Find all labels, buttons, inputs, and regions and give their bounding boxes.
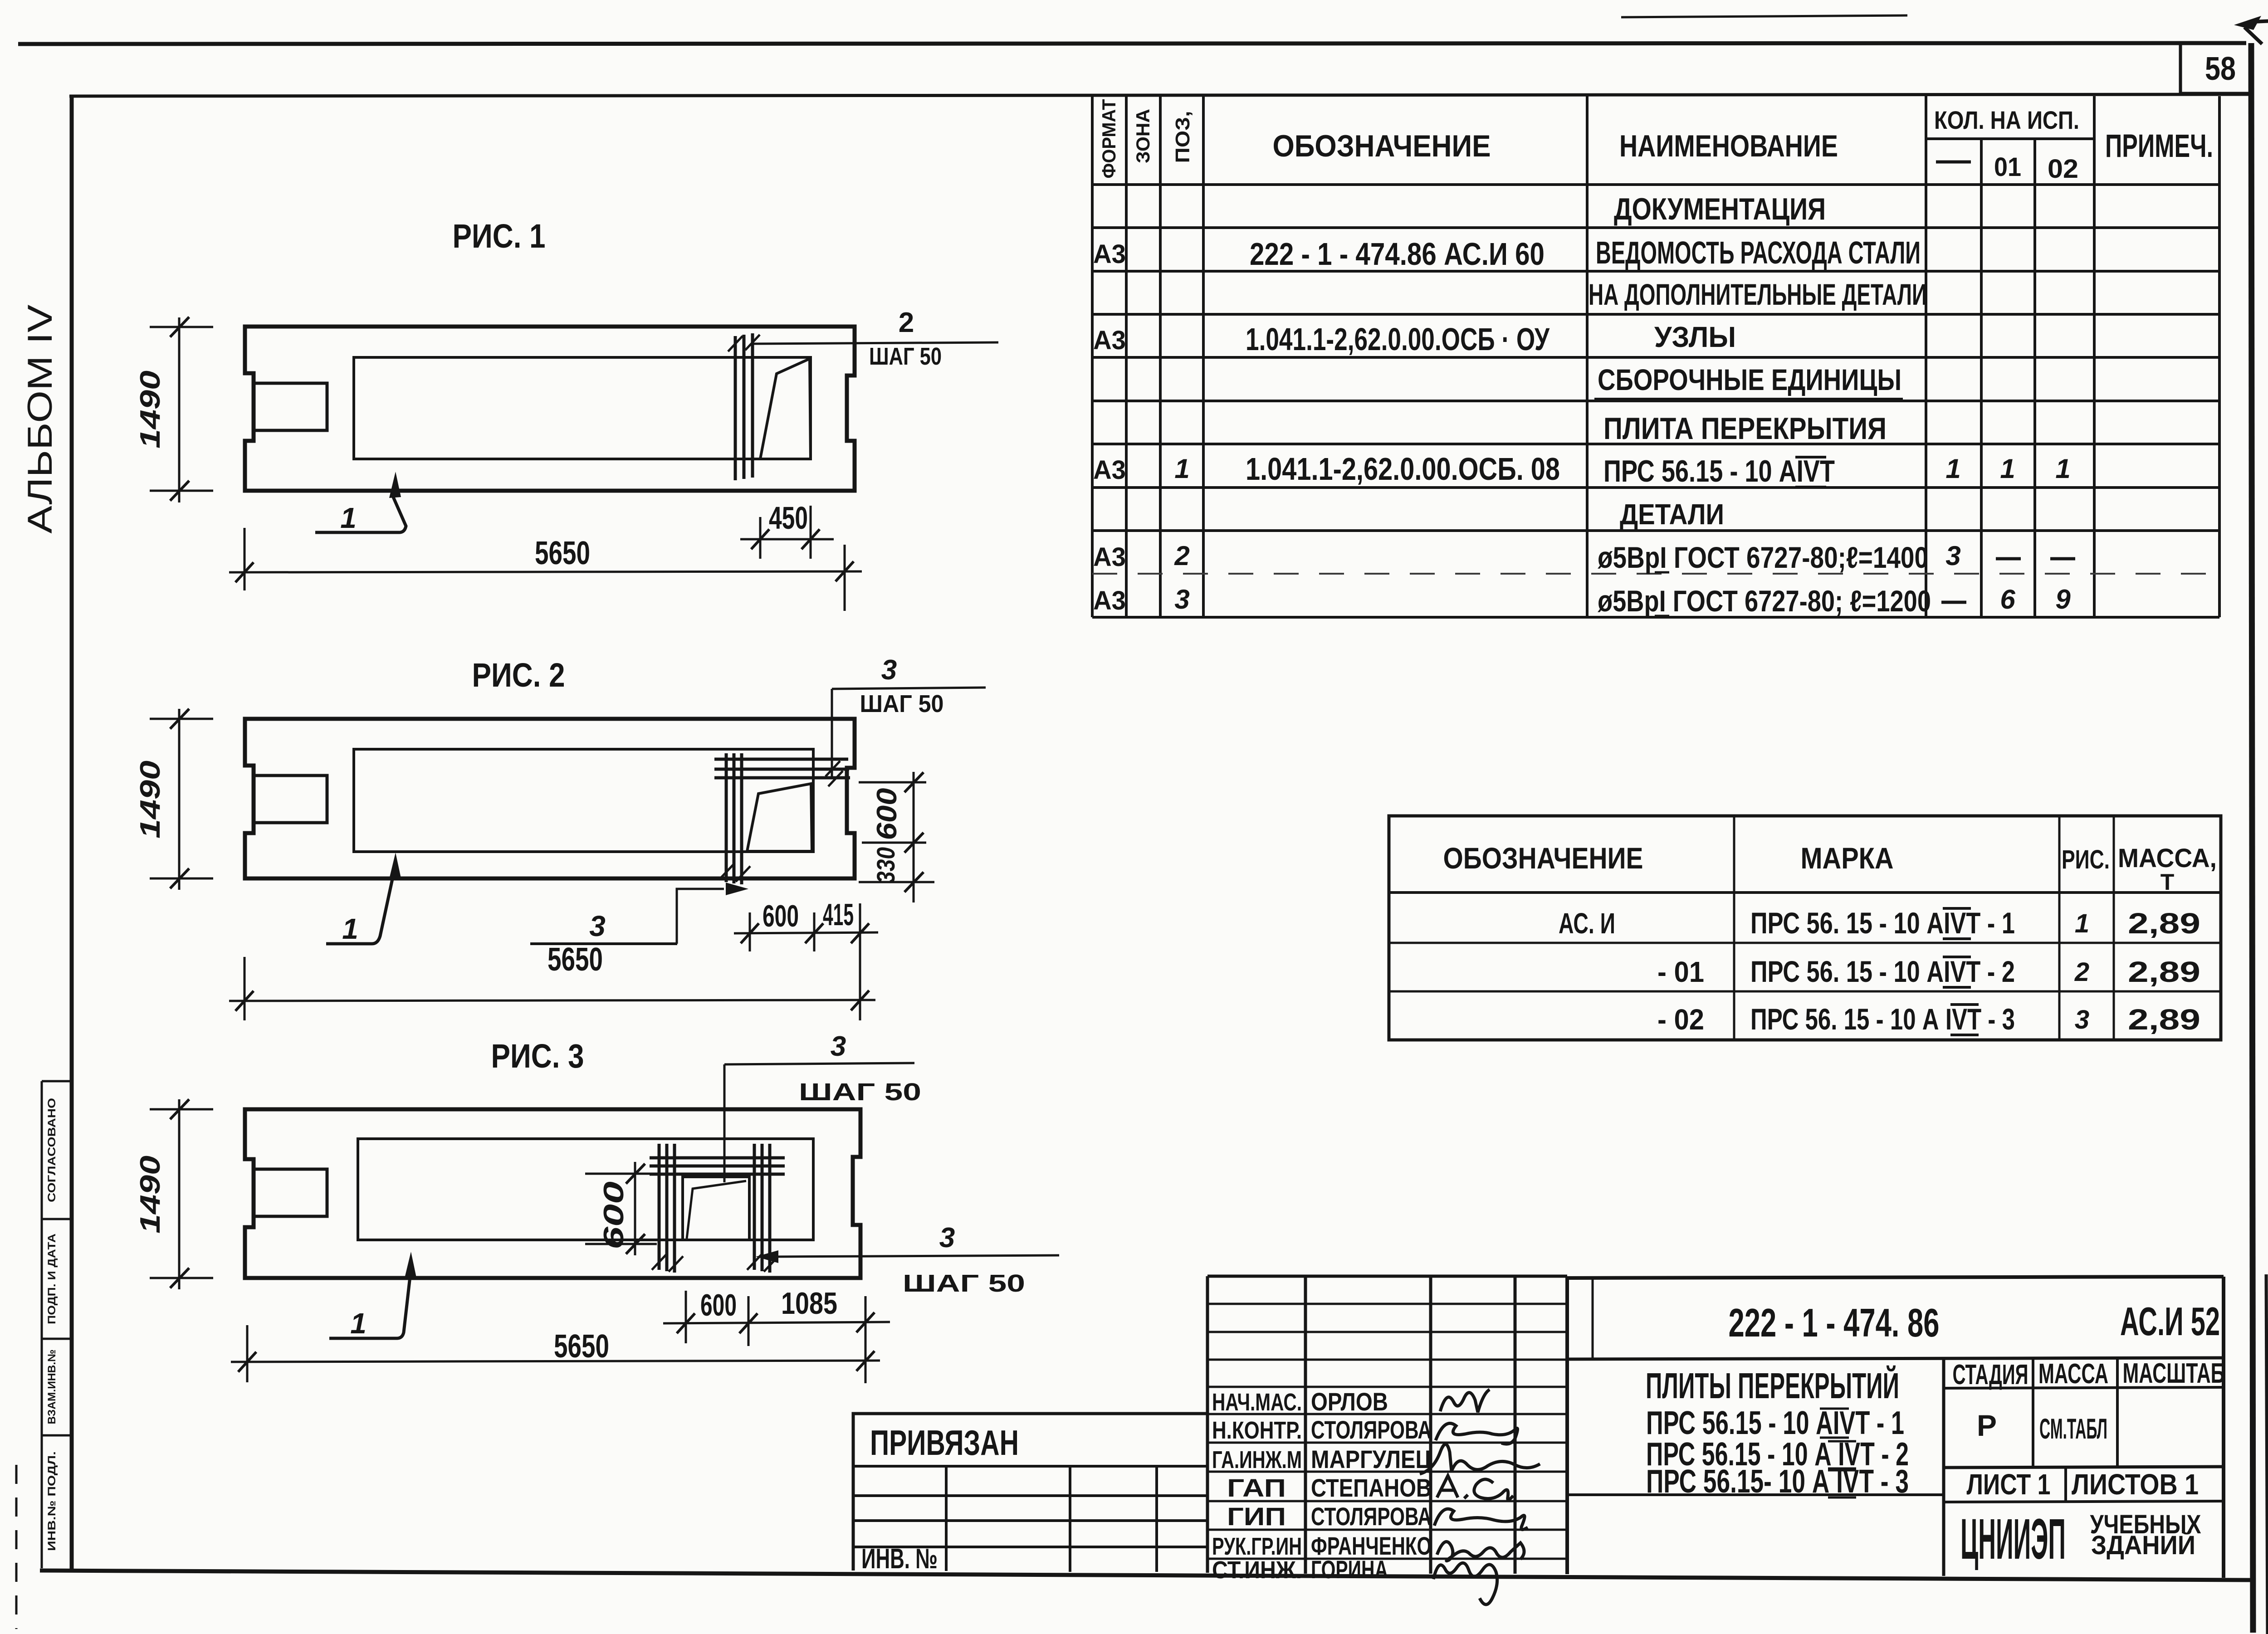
fig1 dim5650 ticks: [235, 561, 854, 582]
fig1 dim450 ext: [760, 506, 811, 559]
fig3 leader1 line: [329, 1277, 410, 1338]
svg-text:ИНВ. №: ИНВ. №: [861, 1543, 938, 1575]
svg-text:СОГЛАСОВАНО: СОГЛАСОВАНО: [46, 1098, 58, 1202]
svg-text:РУК.ГР.ИН: РУК.ГР.ИН: [1212, 1533, 1302, 1560]
svg-text:ПРИВЯЗАН: ПРИВЯЗАН: [870, 1423, 1019, 1463]
fig2 leader3 arrow: [726, 883, 748, 895]
marka row line 2: [1389, 990, 2221, 993]
fig3 rebar vertical group A: [659, 1144, 675, 1273]
title divider name/stage: [1942, 1358, 1945, 1576]
svg-text:1490: 1490: [135, 371, 166, 449]
fig3 left joint tab: [254, 1169, 327, 1216]
svg-text:600: 600: [871, 788, 903, 840]
svg-text:3: 3: [2075, 1005, 2089, 1034]
fig2 rebar horizontal bars: [714, 759, 850, 778]
svg-text:Н.КОНТР.: Н.КОНТР.: [1212, 1417, 1302, 1444]
fig2 dim600-330 ticks: [904, 772, 924, 892]
svg-text:600: 600: [598, 1181, 630, 1249]
marka r1 IV bars: [1943, 908, 1971, 939]
svg-text:415: 415: [823, 897, 854, 932]
spec row line y1170: [1092, 529, 2219, 532]
fig2 dim5650 line: [229, 1000, 875, 1001]
fig1 leader1 arrow: [389, 472, 401, 498]
fig2 dim1490 ext: [150, 719, 213, 878]
drawing frame right page edge: [2251, 43, 2253, 1633]
svg-text:ОБОЗНАЧЕНИЕ: ОБОЗНАЧЕНИЕ: [1443, 841, 1643, 875]
spec table col obozn: [1202, 96, 1205, 617]
svg-text:МАССА,: МАССА,: [2118, 844, 2217, 873]
title header bottom: [1567, 1358, 2224, 1359]
spec table table right: [2218, 96, 2221, 617]
spec subheader dash: [1936, 161, 1971, 164]
fig1 inner recess: [354, 357, 811, 459]
page top border line: [18, 43, 2246, 44]
svg-text:РИС. 3: РИС. 3: [491, 1037, 584, 1075]
svg-text:600: 600: [763, 899, 799, 933]
svg-text:АС. И: АС. И: [1559, 907, 1615, 940]
fig3 dim600-1085 line: [663, 1322, 890, 1323]
svg-text:330: 330: [871, 847, 900, 883]
svg-text:3: 3: [831, 1031, 846, 1062]
svg-text:ø5ВрI ГОСТ 6727-80;ℓ=1400: ø5ВрI ГОСТ 6727-80;ℓ=1400: [1598, 541, 1928, 574]
svg-text:СТ.ИНЖ.: СТ.ИНЖ.: [1212, 1556, 1302, 1584]
sig scribble margulec: [1420, 1444, 1540, 1474]
svg-text:600: 600: [700, 1288, 737, 1322]
svg-text:ЗОНА: ЗОНА: [1132, 109, 1154, 163]
fig2 dim1490 ticks: [170, 709, 189, 888]
spec table col format: [1091, 96, 1094, 617]
fig1 dim1490 ext: [150, 327, 213, 491]
fig2 dim600-330 line: [913, 772, 915, 902]
fig3 dim5650 line: [231, 1361, 880, 1362]
svg-text:3: 3: [1945, 541, 1960, 571]
svg-text:НА ДОПОЛНИТЕЛЬНЫЕ ДЕТАЛИ: НА ДОПОЛНИТЕЛЬНЫЕ ДЕТАЛИ: [1589, 278, 1927, 311]
marka table outer box: [1389, 816, 2221, 1040]
svg-text:2,89: 2,89: [2128, 1003, 2200, 1036]
spec r7 IV bars: [1795, 457, 1826, 487]
fig3 dim5650 ext left: [246, 1325, 249, 1382]
marka col ris: [2058, 816, 2061, 1040]
drawing frame bottom: [40, 1571, 2253, 1580]
spec kol subheader divider: [1926, 137, 2094, 140]
sig grid top: [1207, 1275, 1567, 1278]
spec row line y598: [1092, 270, 2219, 273]
spec row line dashed: [1092, 573, 2219, 575]
fig3 dim600 ticks: [626, 1164, 645, 1254]
stage header bottom: [1944, 1387, 2224, 1388]
svg-text:Т: Т: [2160, 869, 2175, 895]
fig2 slab outline: [245, 719, 855, 878]
spec row line y1361: [1092, 616, 2219, 619]
drawing frame top: [69, 94, 2253, 96]
stage dividers: [2033, 1359, 2117, 1467]
spec r10 I underline: [1655, 615, 1669, 617]
fig3 bent bar diagonal: [687, 1181, 746, 1239]
page edge shadow lower right: [2266, 1274, 2268, 1634]
fig3 rebar horizontal bars: [650, 1158, 785, 1174]
svg-text:А3: А3: [1093, 239, 1126, 269]
fig1 dim5650 ext: [244, 528, 845, 611]
sig scribble stepanov: [1437, 1476, 1513, 1500]
fig3 dim600 line: [634, 1162, 636, 1255]
fig3 rebar vertical group B: [754, 1144, 770, 1273]
svg-text:ЛИСТОВ 1: ЛИСТОВ 1: [2072, 1468, 2199, 1501]
marka col marka: [1733, 816, 1735, 1040]
svg-text:СТАДИЯ: СТАДИЯ: [1953, 1359, 2028, 1390]
svg-text:1: 1: [2000, 454, 2015, 484]
sig scribble stolyarova1: [1436, 1423, 1518, 1444]
title block right: [2222, 1277, 2225, 1578]
fig2 rebar vertical bars: [726, 753, 742, 884]
fig3 dim600 ext: [585, 1174, 657, 1244]
svg-text:А3: А3: [1093, 326, 1126, 355]
sig grid verticals: [1207, 1276, 1515, 1574]
fig2 dim600-330 ext: [859, 782, 934, 882]
svg-text:МАСШТАБ: МАСШТАБ: [2123, 1358, 2225, 1389]
corner trim arrow top right: [2234, 16, 2261, 30]
svg-text:3: 3: [589, 910, 606, 942]
svg-text:58: 58: [2205, 51, 2236, 87]
fig2 dim5650 ticks: [235, 990, 869, 1011]
spec table col poz: [1159, 96, 1162, 617]
svg-text:НАИМЕНОВАНИЕ: НАИМЕНОВАНИЕ: [1619, 129, 1838, 163]
fig2 rebar ticks: [719, 761, 843, 882]
svg-text:РИС. 1: РИС. 1: [453, 217, 546, 255]
fig2 dim600-415 ticks: [741, 923, 869, 943]
svg-text:ГИП: ГИП: [1227, 1502, 1286, 1531]
svg-text:МАРКА: МАРКА: [1801, 841, 1894, 875]
svg-text:ПРС 56.15- 10 А IVТ - 3: ПРС 56.15- 10 А IVТ - 3: [1646, 1463, 1909, 1500]
svg-text:5650: 5650: [554, 1328, 609, 1365]
fig2 left joint tab: [254, 776, 327, 823]
svg-text:А3: А3: [1093, 586, 1126, 615]
svg-text:ПРС 56.15 - 10 АIVТ: ПРС 56.15 - 10 АIVТ: [1603, 454, 1835, 488]
svg-text:ОРЛОВ: ОРЛОВ: [1311, 1387, 1388, 1416]
privyazan table outline: [853, 1414, 1207, 1571]
fig1 dim450 ticks: [751, 529, 820, 549]
spec row line y1075: [1092, 486, 2219, 489]
spec row line y979: [1092, 443, 2219, 445]
svg-text:ДЕТАЛИ: ДЕТАЛИ: [1620, 498, 1724, 531]
svg-text:02: 02: [2048, 154, 2078, 184]
svg-text:ШАГ 50: ШАГ 50: [869, 343, 942, 370]
svg-text:2,89: 2,89: [2128, 956, 2200, 988]
title prs1 IV bars: [1820, 1409, 1849, 1438]
fig2 dim5650 ext left: [244, 957, 246, 1020]
svg-text:СБОРОЧНЫЕ ЕДИНИЦЫ: СБОРОЧНЫЕ ЕДИНИЦЫ: [1598, 363, 1901, 396]
fig1 slab outline: [245, 327, 855, 491]
fig1 callout line: [754, 342, 998, 344]
svg-text:ПОЗ,: ПОЗ,: [1172, 111, 1194, 163]
svg-text:ЛИСТ 1: ЛИСТ 1: [1967, 1468, 2051, 1501]
svg-text:222 - 1 - 474.86 АС.И 60: 222 - 1 - 474.86 АС.И 60: [1250, 236, 1545, 272]
svg-text:5650: 5650: [535, 535, 590, 571]
spec table col kol-left: [1925, 96, 1927, 617]
specification table grid: [1092, 96, 2219, 617]
svg-text:НАЧ.МАС.: НАЧ.МАС.: [1212, 1389, 1302, 1416]
sig scribble stolyarova2: [1434, 1509, 1528, 1530]
svg-text:1085: 1085: [781, 1286, 837, 1321]
svg-text:2: 2: [899, 307, 914, 338]
svg-text:1: 1: [340, 502, 357, 534]
fig3 callout3 top vertical: [723, 1064, 726, 1182]
svg-text:- 01: - 01: [1657, 956, 1704, 988]
title block left: [1565, 1276, 1569, 1574]
svg-text:3: 3: [939, 1222, 955, 1254]
faint upper border segment: [1621, 15, 1907, 17]
title prs3 IV bars: [1828, 1468, 1856, 1497]
svg-text:2: 2: [1174, 541, 1189, 571]
svg-text:ОБОЗНАЧЕНИЕ: ОБОЗНАЧЕНИЕ: [1273, 129, 1491, 163]
sig scribble gorina: [1433, 1563, 1497, 1605]
svg-text:А3: А3: [1093, 542, 1126, 572]
svg-text:ПРИМЕЧ.: ПРИМЕЧ.: [2105, 128, 2213, 164]
spec row line y884: [1092, 400, 2219, 402]
fig3 callout3 right line: [777, 1255, 1059, 1257]
fig1 rebar bars: [735, 333, 753, 480]
svg-text:ПРС 56.15 - 10 АIVТ - 1: ПРС 56.15 - 10 АIVТ - 1: [1646, 1405, 1904, 1441]
svg-text:КОЛ. НА ИСП.: КОЛ. НА ИСП.: [1934, 106, 2079, 134]
svg-text:АЛЬБОМ IV: АЛЬБОМ IV: [21, 304, 59, 533]
svg-text:1: 1: [342, 912, 358, 945]
svg-text:1490: 1490: [135, 761, 166, 839]
svg-text:А3: А3: [1093, 455, 1126, 485]
marka r3 IV bars: [1950, 1005, 1979, 1035]
svg-text:ВЗАМ.ИНВ.№: ВЗАМ.ИНВ.№: [46, 1350, 58, 1424]
spec table col zona: [1125, 96, 1128, 617]
svg-text:1: 1: [350, 1307, 367, 1340]
spec table col kol02: [2033, 139, 2036, 617]
svg-text:РИС. 2: РИС. 2: [472, 656, 565, 694]
sheet number box: [2180, 45, 2249, 93]
spec row line y407: [1092, 183, 2219, 186]
marka col massa: [2113, 816, 2115, 1040]
svg-text:ПРС 56. 15 - 10 АIVТ - 1: ПРС 56. 15 - 10 АIVТ - 1: [1750, 906, 2015, 940]
fig1 leader1 line: [315, 496, 406, 532]
fig1 rebar ticks: [728, 335, 760, 351]
fold mark dashes: [15, 1465, 18, 1629]
svg-text:ФОРМАТ: ФОРМАТ: [1098, 99, 1119, 178]
svg-text:1490: 1490: [135, 1156, 166, 1234]
fig1 left joint tab: [254, 383, 327, 430]
svg-text:ВЕДОМОСТЬ РАСХОДА СТАЛИ: ВЕДОМОСТЬ РАСХОДА СТАЛИ: [1596, 235, 1921, 270]
fig3 callout3 right arrow: [756, 1250, 778, 1263]
marka r2 IV bars: [1943, 957, 1971, 987]
privyazan row lines: [853, 1466, 1207, 1547]
svg-text:СТОЛЯРОВА: СТОЛЯРОВА: [1311, 1415, 1432, 1444]
svg-text:АС.И 52: АС.И 52: [2120, 1299, 2220, 1344]
svg-text:ПЛИТА ПЕРЕКРЫТИЯ: ПЛИТА ПЕРЕКРЫТИЯ: [1603, 411, 1887, 446]
svg-text:ПРС 56. 15 - 10 АIVТ - 2: ПРС 56. 15 - 10 АIVТ - 2: [1750, 955, 2015, 988]
svg-text:ПОДП. И ДАТА: ПОДП. И ДАТА: [46, 1234, 58, 1324]
svg-text:УЗЛЫ: УЗЛЫ: [1654, 321, 1736, 353]
fig3 rebar ticks: [652, 1254, 778, 1272]
svg-text:ШАГ 50: ШАГ 50: [903, 1270, 1025, 1297]
fig2 leader3 step: [677, 889, 724, 944]
fig3 callout3 top line: [724, 1063, 914, 1064]
svg-text:ГАП: ГАП: [1227, 1473, 1286, 1502]
fig1 dim1490 ticks: [170, 317, 189, 501]
title name bottom line: [1567, 1493, 1944, 1496]
spec r9 I underline: [1655, 571, 1669, 574]
svg-text:ГА.ИНЖ.М: ГА.ИНЖ.М: [1212, 1446, 1302, 1473]
list row bottom: [1944, 1501, 2224, 1502]
fig2 inner recess: [354, 749, 813, 852]
svg-text:Р: Р: [1977, 1409, 1997, 1442]
fig1 dim450 line: [740, 538, 834, 541]
fig2 bent bar: [747, 784, 812, 851]
svg-text:ЦНИИЭП: ЦНИИЭП: [1960, 1507, 2066, 1571]
svg-text:1.041.1-2,62.0.00.ОСБ. 08: 1.041.1-2,62.0.00.ОСБ. 08: [1246, 451, 1560, 487]
fig2 dim1490 line: [178, 709, 181, 890]
svg-text:ø5ВрI ГОСТ 6727-80; ℓ=1200: ø5ВрI ГОСТ 6727-80; ℓ=1200: [1598, 584, 1931, 618]
list row top: [1944, 1467, 2224, 1468]
svg-text:450: 450: [769, 500, 808, 536]
fig2 leader1 line: [326, 877, 393, 944]
fig3 dim5650 ticks: [238, 1351, 875, 1372]
title prs2 IV bars: [1828, 1441, 1856, 1470]
fig2 dim600-415 ext: [750, 903, 860, 1020]
svg-text:СМ.ТАБЛ: СМ.ТАБЛ: [2039, 1413, 2107, 1445]
fig3 bent bar rect: [683, 1177, 749, 1240]
svg-text:1: 1: [2075, 909, 2089, 938]
svg-text:ДОКУМЕНТАЦИЯ: ДОКУМЕНТАЦИЯ: [1614, 192, 1826, 226]
spec table col primech: [2093, 96, 2096, 617]
svg-text:РИС.: РИС.: [2062, 845, 2110, 874]
svg-text:3: 3: [881, 654, 897, 686]
fig3 dim600-1085 ext: [686, 1291, 865, 1383]
marka row line 1: [1389, 942, 2221, 944]
svg-text:01: 01: [1994, 152, 2021, 182]
svg-text:МАССА: МАССА: [2038, 1358, 2108, 1390]
fig3 dim1490 line: [178, 1099, 181, 1289]
svg-text:ШАГ 50: ШАГ 50: [799, 1078, 921, 1106]
marka header bottom: [1389, 891, 2221, 894]
svg-text:1.041.1-2,62.0.00.ОСБ · ОУ: 1.041.1-2,62.0.00.ОСБ · ОУ: [1246, 322, 1550, 357]
svg-text:2: 2: [2074, 957, 2089, 987]
spec row line y502: [1092, 226, 2219, 229]
fig3 inner recess: [358, 1139, 813, 1240]
fig2 callout3 vertical: [831, 689, 833, 778]
svg-text:6: 6: [2000, 584, 2015, 615]
svg-text:ПЛИТЫ ПЕРЕКРЫТИЙ: ПЛИТЫ ПЕРЕКРЫТИЙ: [1646, 1365, 1899, 1406]
svg-text:5650: 5650: [547, 941, 603, 978]
sig scribble orlov: [1440, 1390, 1490, 1412]
fig3 dim600-1085 ticks: [677, 1312, 875, 1333]
privyazan column dividers: [946, 1466, 1157, 1572]
svg-text:1: 1: [1174, 454, 1189, 484]
title block top: [1567, 1277, 2224, 1278]
left margin stamp boxes: [42, 1081, 72, 1568]
svg-text:2,89: 2,89: [2128, 907, 2200, 940]
title inner left vertical: [1592, 1278, 1594, 1359]
fig2 callout3 line: [832, 688, 986, 689]
spec r10 qty: [1941, 601, 1966, 604]
sig scribble franchenko: [1437, 1541, 1524, 1561]
sig grid rows: [1207, 1304, 1567, 1559]
fig3 slab outline: [245, 1109, 860, 1278]
fig3 dim1490 ticks: [170, 1099, 189, 1288]
svg-text:ИНВ.№ ПОДЛ.: ИНВ.№ ПОДЛ.: [46, 1451, 58, 1551]
fig2 dim600-415 line: [734, 932, 878, 933]
spec row line y788: [1092, 356, 2219, 359]
svg-text:222 - 1 - 474. 86: 222 - 1 - 474. 86: [1729, 1300, 1940, 1345]
svg-text:СТОЛЯРОВА: СТОЛЯРОВА: [1311, 1502, 1432, 1531]
svg-text:МАРГУЛЕЦ: МАРГУЛЕЦ: [1311, 1445, 1432, 1473]
svg-text:1: 1: [1945, 454, 1960, 484]
fig3 dim1490 ext: [150, 1109, 213, 1278]
spec table col naimen: [1586, 96, 1589, 617]
svg-text:ШАГ 50: ШАГ 50: [860, 690, 944, 717]
svg-text:- 02: - 02: [1657, 1003, 1704, 1036]
svg-text:СТЕПАНОВ: СТЕПАНОВ: [1311, 1473, 1432, 1502]
fig3 leader1 arrow: [405, 1252, 416, 1278]
drawing frame left: [70, 95, 74, 1572]
fig2 leader3 underline: [530, 942, 677, 945]
fig2 leader1 arrow: [389, 853, 401, 879]
list row divider: [2064, 1468, 2067, 1502]
svg-text:ГОРИНА: ГОРИНА: [1311, 1555, 1388, 1584]
svg-text:3: 3: [1174, 584, 1189, 615]
svg-text:ПРС 56. 15 - 10 А IVТ - 3: ПРС 56. 15 - 10 А IVТ - 3: [1750, 1002, 2015, 1036]
fig1 bent bar: [760, 359, 811, 459]
fig1 dim1490 line: [178, 317, 181, 502]
svg-text:1: 1: [2055, 454, 2070, 484]
svg-text:ЗДАНИЙ: ЗДАНИЙ: [2091, 1531, 2195, 1560]
fig1 dim5650 line: [229, 571, 862, 572]
spec row line y693: [1092, 313, 2219, 316]
svg-text:9: 9: [2055, 584, 2071, 615]
spec table col kol01: [1980, 139, 1983, 617]
